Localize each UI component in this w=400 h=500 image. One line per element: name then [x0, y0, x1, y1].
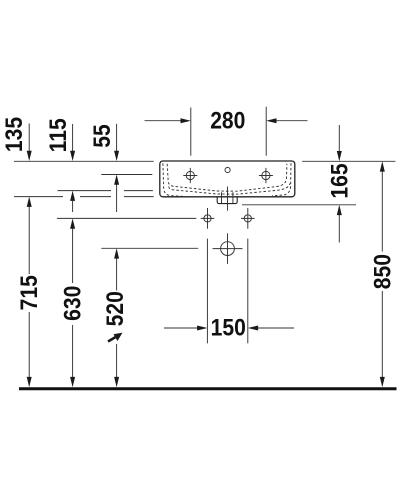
dimension 115 arrow down	[72, 124, 74, 152]
arrowhead 150 left	[197, 326, 207, 331]
dimension 280 extension right	[265, 107, 267, 156]
dimension 135 arrow down	[28, 124, 30, 153]
arrowhead 135 down	[27, 151, 32, 161]
node 135-line	[14, 196, 154, 198]
arrowhead 280 right	[266, 118, 276, 123]
arrowhead 630 up	[70, 218, 75, 228]
arrowhead 55 down	[114, 151, 119, 161]
dimension 55 arrow down	[116, 124, 118, 152]
svg-text:520: 520	[102, 291, 129, 326]
arrowhead 115 up	[70, 191, 75, 201]
dimension 280 arrow lines	[145, 120, 308, 122]
svg-text:630: 630	[59, 286, 86, 321]
svg-text:150: 150	[211, 314, 246, 341]
basin bowl dashed inner rim contour	[167, 164, 287, 191]
node 55-line	[101, 174, 152, 176]
dimension 280 extension left	[190, 108, 192, 156]
drain centerline	[227, 187, 229, 211]
basin bowl dashed outer wall right	[272, 163, 291, 196]
svg-text:280: 280	[210, 107, 245, 134]
arrowhead 115 down	[70, 151, 75, 161]
basin bowl dashed outer wall left	[163, 163, 183, 196]
dimension 150 extension right	[247, 239, 249, 344]
washbasin outline	[160, 161, 295, 197]
svg-text:850: 850	[369, 254, 396, 289]
dimension 520 line	[116, 258, 118, 377]
arrowhead 850 up	[380, 161, 385, 171]
wire rim leader line right	[302, 160, 395, 162]
dimension 150 extension left	[206, 239, 208, 344]
arrowhead 135 up	[27, 197, 32, 207]
svg-text:55: 55	[89, 124, 116, 147]
arrowhead 520 floor	[114, 377, 119, 387]
mounting hole right	[241, 208, 255, 229]
arrowhead 630 floor	[70, 377, 75, 387]
overflow hole	[225, 167, 230, 172]
dimension 715 line	[28, 207, 30, 378]
dimension 850 line	[381, 171, 383, 377]
faucet hole left	[183, 168, 197, 183]
svg-text:165: 165	[326, 163, 353, 198]
arrowhead 520 up	[114, 248, 119, 258]
dimension 165 arrow down	[338, 125, 340, 151]
node 630-line	[57, 217, 196, 219]
faucet hole right	[259, 168, 273, 183]
node 115-line	[58, 190, 153, 192]
drain flange	[217, 197, 237, 204]
arrowhead 150 right	[248, 326, 258, 331]
arrowhead 165 down	[337, 151, 342, 161]
mounting hole left	[201, 208, 215, 229]
node 165-line	[242, 204, 356, 206]
dimension 115 arrow up shaft	[72, 201, 74, 212]
arrowhead 165 up	[337, 205, 342, 215]
dimension 55 arrow up shaft	[116, 185, 118, 213]
arrowhead 280 left	[181, 118, 191, 123]
floor line	[19, 387, 397, 390]
break symbol on 520 line	[108, 333, 123, 342]
svg-text:135: 135	[1, 117, 28, 152]
wire rim leader line left	[14, 160, 154, 162]
dimension 630 line	[72, 228, 74, 377]
drain inner walls	[222, 192, 233, 203]
node 520-line	[101, 247, 198, 249]
arrowhead 850 floor	[380, 377, 385, 387]
dimension 165 arrow up shaft	[338, 215, 340, 243]
arrowhead 715 floor	[27, 377, 32, 387]
svg-text:115: 115	[45, 118, 72, 152]
dimension 150 arrow lines	[164, 327, 294, 329]
svg-text:715: 715	[16, 275, 43, 310]
siphon hole	[213, 233, 243, 264]
arrowhead 55 up	[114, 175, 119, 185]
basin bowl dashed floor contour	[169, 184, 290, 195]
